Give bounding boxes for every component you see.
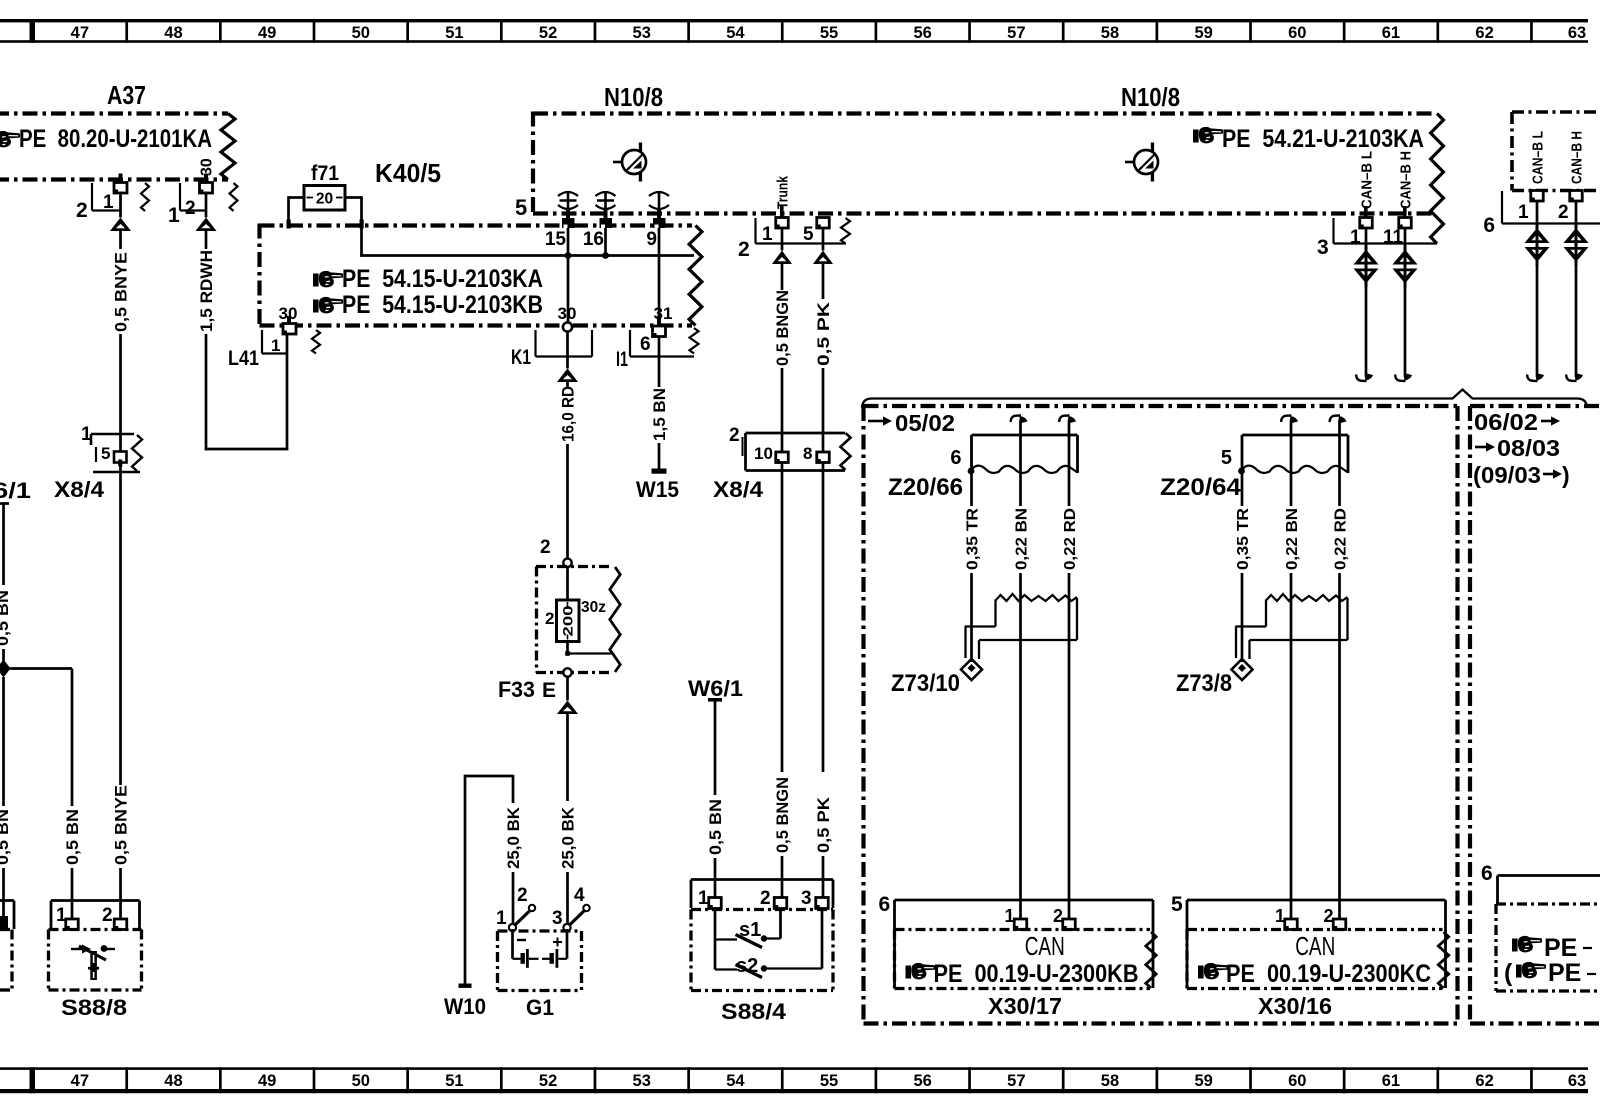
svg-text:S88/8: S88/8 bbox=[61, 995, 127, 1020]
svg-text:K40/5: K40/5 bbox=[375, 158, 441, 188]
svg-text:57: 57 bbox=[1007, 1072, 1025, 1090]
svg-text:Z20/66: Z20/66 bbox=[888, 474, 963, 501]
svg-text:W10: W10 bbox=[444, 994, 486, 1019]
svg-text:1,5 RDWH: 1,5 RDWH bbox=[198, 250, 216, 332]
svg-text:PE 00.19-U-2300KB: PE 00.19-U-2300KB bbox=[934, 960, 1139, 988]
switch S88/4 box bbox=[691, 910, 833, 991]
connector X8/4 left bbox=[81, 424, 142, 472]
S88/8 label bbox=[61, 995, 127, 1020]
svg-text:CAN: CAN bbox=[1025, 931, 1065, 961]
N10/8 pin 11 CAN-B H bbox=[1383, 151, 1415, 248]
svg-text:I1: I1 bbox=[616, 348, 628, 371]
switch S88/8 contact symbol bbox=[71, 945, 115, 981]
svg-text:0,5 BN: 0,5 BN bbox=[64, 809, 82, 865]
svg-text:54: 54 bbox=[726, 24, 745, 42]
wire 0,22 BN Z20/64 bbox=[1281, 416, 1301, 920]
junction diamond bbox=[0, 660, 11, 678]
inductive loop Z20/66 bbox=[965, 594, 1077, 659]
svg-text:49: 49 bbox=[258, 1072, 276, 1090]
svg-text:59: 59 bbox=[1194, 24, 1212, 42]
cut label 6/1 bbox=[0, 478, 31, 503]
svg-text:Z20/64: Z20/64 bbox=[1160, 474, 1242, 501]
CAN label X30/16 bbox=[1295, 931, 1335, 961]
N10/8 internal symbol left bbox=[613, 143, 646, 182]
amplifier N10/8 box bbox=[533, 112, 1443, 244]
wire 0,5 BNYE upper bbox=[112, 192, 130, 435]
sleeve triangle K1 bbox=[557, 369, 578, 383]
switch S88/8 box bbox=[49, 930, 142, 991]
Trunk pin 1 bbox=[738, 175, 850, 261]
svg-text:47: 47 bbox=[71, 24, 89, 42]
heater element Z20/64 bracket bbox=[1221, 435, 1348, 474]
N10/8 label left bbox=[604, 82, 663, 112]
svg-text:54: 54 bbox=[726, 1072, 745, 1090]
wire 25,0 BK left bbox=[505, 775, 523, 924]
svg-text:6: 6 bbox=[1483, 214, 1495, 237]
svg-text:S88/4: S88/4 bbox=[721, 999, 787, 1024]
wire 0,35 TR Z20/64 bbox=[1235, 473, 1252, 662]
wire 0,5 PK lower bbox=[815, 463, 833, 899]
svg-text:61: 61 bbox=[1382, 1072, 1400, 1090]
svg-text:1: 1 bbox=[103, 192, 114, 213]
Z73/10 label bbox=[891, 670, 960, 697]
A37 label bbox=[107, 80, 146, 110]
svg-text:Z73/10: Z73/10 bbox=[891, 670, 960, 697]
PE&#160;&#160;00.19-U-2300KC reference bbox=[1198, 960, 1431, 988]
svg-text:5: 5 bbox=[515, 195, 527, 220]
svg-text:9: 9 bbox=[646, 229, 657, 250]
svg-text:30: 30 bbox=[558, 304, 577, 323]
PE reference bottom right 1 bbox=[1512, 934, 1592, 962]
pin 1 CAN-B L right bbox=[1518, 131, 1547, 223]
svg-text:08/03: 08/03 bbox=[1497, 435, 1560, 461]
solder point Z73/8 bbox=[1232, 659, 1253, 680]
svg-text:CAN–B H: CAN–B H bbox=[1398, 151, 1415, 209]
svg-text:16: 16 bbox=[583, 229, 604, 250]
label 08/03 bbox=[1475, 435, 1560, 461]
G1 switch contact 3 bbox=[552, 885, 590, 931]
svg-text:50: 50 bbox=[352, 1072, 370, 1090]
svg-text:53: 53 bbox=[633, 24, 651, 42]
wire pin16 stub bbox=[604, 228, 607, 257]
svg-text:PE 80.20-U-2101KA: PE 80.20-U-2101KA bbox=[19, 125, 212, 153]
ground W15 bbox=[652, 469, 667, 474]
top ruler grid 47-63 bbox=[0, 19, 1588, 43]
svg-text:(: ( bbox=[1504, 959, 1513, 987]
wire CAN-B L bbox=[1356, 228, 1373, 381]
svg-text:1: 1 bbox=[496, 908, 507, 929]
svg-text:06/02: 06/02 bbox=[1474, 409, 1538, 435]
svg-text:8: 8 bbox=[803, 444, 812, 463]
svg-text:2: 2 bbox=[545, 609, 554, 628]
svg-text:62: 62 bbox=[1475, 24, 1493, 42]
svg-text:58: 58 bbox=[1101, 1072, 1119, 1090]
ground W10 bbox=[459, 775, 514, 988]
bracket 6 right bbox=[1483, 191, 1600, 237]
svg-text:0,5 BNGN: 0,5 BNGN bbox=[774, 777, 792, 853]
svg-text:52: 52 bbox=[539, 1072, 557, 1090]
svg-text:CAN–B L: CAN–B L bbox=[1530, 131, 1547, 184]
svg-text:(09/03: (09/03 bbox=[1473, 462, 1541, 488]
svg-text:50: 50 bbox=[352, 24, 370, 42]
svg-text:CAN–B H: CAN–B H bbox=[1569, 131, 1586, 184]
svg-text:2: 2 bbox=[540, 537, 551, 558]
svg-text:X8/4: X8/4 bbox=[54, 477, 105, 502]
W10 label bbox=[444, 994, 486, 1019]
L41 label bbox=[228, 347, 259, 370]
svg-text:6/1: 6/1 bbox=[0, 478, 31, 503]
wire 1,5 BN bbox=[651, 337, 669, 470]
connector bottom right outer bbox=[1481, 862, 1600, 904]
wire 0,5 BNGN upper bbox=[774, 228, 792, 452]
N10/8 pin 9 bbox=[646, 208, 665, 250]
N10/8 pin 16 bbox=[583, 208, 612, 250]
pin 2 CAN-B H right bbox=[1558, 131, 1586, 223]
branch wire to S88/8 pin1 bbox=[10, 669, 82, 920]
svg-text:W6/1: W6/1 bbox=[688, 676, 743, 701]
svg-text:2: 2 bbox=[729, 425, 740, 446]
svg-text:N10/8: N10/8 bbox=[604, 82, 663, 112]
svg-text:6: 6 bbox=[879, 893, 891, 916]
svg-text:57: 57 bbox=[1007, 24, 1025, 42]
svg-text:3: 3 bbox=[552, 908, 563, 929]
svg-text:PE 00.19-U-2300KC: PE 00.19-U-2300KC bbox=[1226, 960, 1431, 988]
svg-text:L41: L41 bbox=[228, 347, 259, 370]
svg-text:2: 2 bbox=[185, 198, 196, 219]
sleeve triangle trunk 5 bbox=[813, 251, 833, 265]
wire 25,0 BK right bbox=[559, 677, 577, 924]
X30/16 label bbox=[1258, 993, 1332, 1019]
svg-text:56: 56 bbox=[913, 24, 931, 42]
svg-text:X30/16: X30/16 bbox=[1258, 993, 1332, 1019]
svg-text:59: 59 bbox=[1194, 1072, 1212, 1090]
label 09/03 bbox=[1473, 462, 1570, 488]
svg-text:): ) bbox=[1562, 462, 1570, 488]
X30/16 pin 2 bbox=[1323, 906, 1345, 930]
wire 16,0 RD bbox=[559, 332, 577, 560]
svg-text:1: 1 bbox=[271, 336, 280, 355]
svg-text:1: 1 bbox=[168, 204, 180, 227]
svg-text:2: 2 bbox=[102, 905, 113, 926]
svg-text:49: 49 bbox=[258, 24, 276, 42]
svg-text:48: 48 bbox=[164, 24, 182, 42]
svg-text:11: 11 bbox=[1383, 227, 1404, 248]
svg-text:6: 6 bbox=[1481, 862, 1493, 885]
svg-text:15: 15 bbox=[545, 229, 567, 250]
switch s2 bbox=[715, 909, 822, 978]
N10/8 internal symbol right bbox=[1125, 143, 1158, 182]
connector X30/17 outer bbox=[879, 893, 1154, 988]
sleeve triangle A37 pin1 bbox=[110, 218, 131, 232]
sleeve triangle A37 pin30 bbox=[196, 218, 217, 232]
K1 label bbox=[511, 346, 531, 369]
label 06/02 bbox=[1474, 409, 1560, 435]
svg-text:16,0 RD: 16,0 RD bbox=[559, 386, 577, 442]
svg-text:2: 2 bbox=[76, 199, 88, 222]
svg-text:60: 60 bbox=[1288, 1072, 1306, 1090]
Z20/66 label bbox=[888, 474, 963, 501]
wire CAN-B L right bbox=[1527, 201, 1544, 381]
svg-text:5: 5 bbox=[1221, 447, 1232, 469]
K40/5 label bbox=[375, 158, 441, 188]
svg-text:55: 55 bbox=[820, 24, 838, 42]
svg-text:0,5 BN: 0,5 BN bbox=[0, 590, 12, 646]
A37 pin 30 bbox=[168, 158, 238, 227]
svg-text:56: 56 bbox=[913, 1072, 931, 1090]
wire 0,35 TR Z20/66 bbox=[964, 473, 981, 662]
bracket 3 bbox=[1317, 218, 1437, 259]
svg-text:6: 6 bbox=[950, 447, 961, 469]
X30/17 label bbox=[988, 993, 1062, 1019]
N10/8 pin 16 (+) symbol bbox=[596, 192, 616, 209]
svg-text:30: 30 bbox=[199, 158, 216, 176]
svg-text:0,22 RD: 0,22 RD bbox=[1332, 508, 1349, 570]
svg-text:0,35 TR: 0,35 TR bbox=[964, 508, 981, 570]
svg-text:Trunk: Trunk bbox=[775, 175, 792, 209]
wire 0,22 BN Z20/66 bbox=[1011, 416, 1031, 920]
CAN box X30/16 bbox=[1187, 930, 1449, 989]
svg-text:3: 3 bbox=[801, 888, 812, 909]
svg-text:31: 31 bbox=[654, 304, 673, 323]
svg-text:0,5 BNGN: 0,5 BNGN bbox=[774, 290, 792, 366]
battery G1 cells bbox=[513, 929, 568, 968]
svg-text:2: 2 bbox=[738, 238, 750, 261]
svg-text:Z73/8: Z73/8 bbox=[1176, 670, 1232, 697]
svg-text:F33: F33 bbox=[498, 677, 535, 702]
bottom ruler grid 47-63 bbox=[0, 1067, 1588, 1093]
I1 label bbox=[616, 348, 628, 371]
F33 label bbox=[498, 677, 535, 702]
svg-text:1: 1 bbox=[1518, 202, 1529, 223]
N10/8 pin 15 bbox=[545, 208, 575, 250]
wire pin15 to pin30 bbox=[567, 228, 570, 322]
twisted pair symbol pin1 bbox=[1354, 246, 1379, 288]
G1 switch contact 1 bbox=[496, 885, 535, 931]
wire 0,5 BN (W6/1) bbox=[707, 701, 725, 898]
svg-text:CAN–B L: CAN–B L bbox=[1359, 151, 1376, 209]
CAN label X30/17 bbox=[1025, 931, 1065, 961]
svg-text:55: 55 bbox=[820, 1072, 838, 1090]
wire 0,5 BN left upper bbox=[0, 590, 12, 661]
svg-text:N10/8: N10/8 bbox=[1121, 82, 1180, 112]
battery G1 box bbox=[498, 931, 582, 991]
heater element Z20/66 bracket bbox=[950, 435, 1077, 474]
connector X30/16 outer bbox=[1171, 893, 1446, 988]
W15 label bbox=[636, 477, 679, 502]
wire f71 left leg bbox=[287, 196, 306, 228]
svg-text:4: 4 bbox=[574, 885, 585, 906]
svg-text:53: 53 bbox=[633, 1072, 651, 1090]
PE 80.20-U-2101KA reference bbox=[0, 125, 212, 153]
svg-text:f71: f71 bbox=[311, 162, 339, 185]
svg-text:30z: 30z bbox=[581, 599, 606, 616]
svg-text:W15: W15 bbox=[636, 477, 679, 502]
switch S88/4 connector bbox=[691, 880, 833, 910]
N10/8 pin 9 (-) symbol bbox=[649, 192, 669, 209]
relay module K40/5 box bbox=[260, 224, 702, 328]
K40/5 pin 30 (K1) bbox=[536, 304, 593, 357]
svg-text:0,22 RD: 0,22 RD bbox=[1062, 508, 1079, 570]
svg-text:K1: K1 bbox=[511, 346, 531, 369]
X30/17 pin 1 bbox=[1004, 906, 1026, 930]
cut box at left edge bbox=[0, 930, 12, 991]
wire f71 right leg bbox=[344, 196, 364, 257]
wire pin9 to pin31 bbox=[658, 228, 661, 323]
svg-text:05/02: 05/02 bbox=[895, 410, 955, 436]
svg-text:PE 54.15-U-2103KA: PE 54.15-U-2103KA bbox=[342, 265, 543, 293]
svg-text:25,0 BK: 25,0 BK bbox=[505, 807, 523, 869]
svg-text:58: 58 bbox=[1101, 24, 1119, 42]
svg-text:1: 1 bbox=[762, 224, 773, 245]
svg-text:62: 62 bbox=[1475, 1072, 1493, 1090]
svg-text:61: 61 bbox=[1382, 24, 1400, 42]
junction label 2 above F33 bbox=[540, 537, 551, 558]
wire 0,5 PK upper bbox=[815, 228, 833, 452]
svg-text:2: 2 bbox=[1558, 202, 1569, 223]
N10/8 label right bbox=[1121, 82, 1180, 112]
PE 54.15-U-2103KA reference bbox=[313, 265, 543, 293]
wire CAN-B H bbox=[1395, 228, 1412, 381]
twisted pair symbol right 2 bbox=[1564, 224, 1589, 266]
X30/16 pin 1 bbox=[1275, 906, 1297, 930]
svg-text:2: 2 bbox=[760, 888, 771, 909]
control unit A37 box bbox=[0, 114, 235, 180]
switch s1 bbox=[715, 909, 781, 948]
wire 0,22 RD Z20/64 bbox=[1330, 416, 1350, 920]
svg-text:10: 10 bbox=[754, 444, 773, 463]
svg-text:0,5 BN: 0,5 BN bbox=[707, 799, 725, 855]
A37 pin 1 bbox=[76, 174, 149, 223]
Z20/64 label bbox=[1160, 474, 1242, 501]
svg-text:X30/17: X30/17 bbox=[988, 993, 1062, 1019]
G1 label bbox=[526, 995, 554, 1020]
svg-text:G1: G1 bbox=[526, 995, 554, 1020]
wire 0,5 BNYE lower bbox=[112, 434, 130, 920]
connector box top right bbox=[1512, 112, 1600, 191]
connector X8/4 right bbox=[729, 425, 851, 471]
svg-text:48: 48 bbox=[164, 1072, 182, 1090]
terminal E label bbox=[542, 679, 556, 702]
svg-text:0,5 PK: 0,5 PK bbox=[815, 302, 833, 366]
svg-text:0,22 BN: 0,22 BN bbox=[1284, 508, 1301, 570]
twisted pair symbol pin11 bbox=[1393, 246, 1418, 288]
svg-text:A37: A37 bbox=[107, 80, 146, 110]
wire CAN-B H right bbox=[1566, 201, 1583, 381]
inductive loop Z20/64 bbox=[1235, 594, 1347, 659]
svg-text:PE 54.21-U-2103KA: PE 54.21-U-2103KA bbox=[1222, 125, 1424, 153]
X30/17 pin 2 bbox=[1053, 906, 1075, 930]
N10/8 pin 1 CAN-B L bbox=[1350, 151, 1376, 248]
Z73/8 label bbox=[1176, 670, 1232, 697]
svg-text:1: 1 bbox=[698, 888, 709, 909]
PE&#160;&#160;00.19-U-2300KB reference bbox=[906, 960, 1139, 988]
X8/4 left label bbox=[54, 477, 105, 502]
svg-text:51: 51 bbox=[445, 1072, 463, 1090]
CAN box X30/17 bbox=[895, 930, 1157, 989]
svg-text:2: 2 bbox=[517, 885, 528, 906]
PE 54.15-U-2103KB reference bbox=[313, 291, 543, 319]
S88/4 label bbox=[721, 999, 787, 1024]
K40/5 pin 1 (L41) bbox=[262, 304, 320, 355]
svg-text:47: 47 bbox=[71, 1072, 89, 1090]
fuse F33 box bbox=[536, 559, 620, 673]
svg-text:1: 1 bbox=[1350, 227, 1361, 248]
fuse element F33 bbox=[545, 567, 613, 677]
svg-text:CAN: CAN bbox=[1295, 931, 1335, 961]
wire 0,5 BN left lower bbox=[0, 677, 12, 916]
variant box 05/02 bbox=[864, 406, 1458, 1024]
label 05/02 bbox=[868, 410, 955, 436]
svg-text:0,5 PK: 0,5 PK bbox=[815, 797, 833, 853]
sleeve triangle F33 E bbox=[557, 701, 578, 715]
K40/5 pin 31 (I1) bbox=[630, 304, 699, 357]
cut box corner left edge bbox=[0, 504, 9, 586]
sleeve triangle trunk 1 bbox=[772, 251, 792, 265]
svg-text:0,5 BN: 0,5 BN bbox=[0, 809, 12, 865]
ground W6/1 bbox=[688, 676, 743, 702]
bus wire from f71 bbox=[360, 252, 694, 259]
svg-text:1,5 BN: 1,5 BN bbox=[651, 388, 669, 441]
wire 0,22 RD Z20/66 bbox=[1059, 416, 1079, 920]
fuse f71 bbox=[304, 162, 345, 210]
svg-text:52: 52 bbox=[539, 24, 557, 42]
PE box bottom right bbox=[1496, 904, 1600, 991]
svg-text:5: 5 bbox=[803, 224, 814, 245]
svg-text:6: 6 bbox=[640, 334, 651, 355]
N10/8 pin 15 (+) symbol bbox=[558, 192, 578, 209]
X8/4 right label bbox=[713, 477, 764, 502]
connector label 5 of N10/8 bbox=[515, 195, 527, 220]
svg-text:E: E bbox=[542, 679, 556, 702]
svg-text:51: 51 bbox=[445, 24, 463, 42]
svg-text:0,5 BNYE: 0,5 BNYE bbox=[112, 785, 130, 865]
PE reference bottom right 2 bbox=[1504, 959, 1596, 987]
svg-text:3: 3 bbox=[1317, 236, 1329, 259]
variant box 06/02 bbox=[1470, 406, 1600, 1024]
svg-text:0,35 TR: 0,35 TR bbox=[1235, 508, 1252, 570]
svg-text:X8/4: X8/4 bbox=[713, 477, 764, 502]
svg-text:5: 5 bbox=[1171, 893, 1183, 916]
svg-text:0,5 BNYE: 0,5 BNYE bbox=[112, 252, 130, 332]
svg-text:0,22 BN: 0,22 BN bbox=[1013, 508, 1030, 570]
solder point Z73/10 bbox=[961, 659, 982, 680]
svg-text:5: 5 bbox=[101, 444, 110, 463]
PE 54.21-U-2103KA reference bbox=[1193, 125, 1424, 153]
svg-text:63: 63 bbox=[1568, 1072, 1586, 1090]
svg-text:20: 20 bbox=[316, 191, 333, 208]
svg-text:200: 200 bbox=[561, 606, 576, 637]
svg-text:25,0 BK: 25,0 BK bbox=[559, 807, 577, 869]
svg-text:60: 60 bbox=[1288, 24, 1306, 42]
wire 0,5 BNGN lower bbox=[774, 463, 792, 899]
wire 1,5 RDWH bbox=[198, 192, 288, 451]
variant brace bbox=[862, 390, 1587, 408]
svg-text:63: 63 bbox=[1568, 24, 1586, 42]
switch S88/8 connector bbox=[51, 901, 140, 930]
Trunk pin 5 bbox=[817, 218, 830, 229]
cut connector at left edge bbox=[0, 901, 14, 930]
twisted pair symbol right 1 bbox=[1525, 224, 1550, 266]
svg-text:PE 54.15-U-2103KB: PE 54.15-U-2103KB bbox=[342, 291, 543, 319]
